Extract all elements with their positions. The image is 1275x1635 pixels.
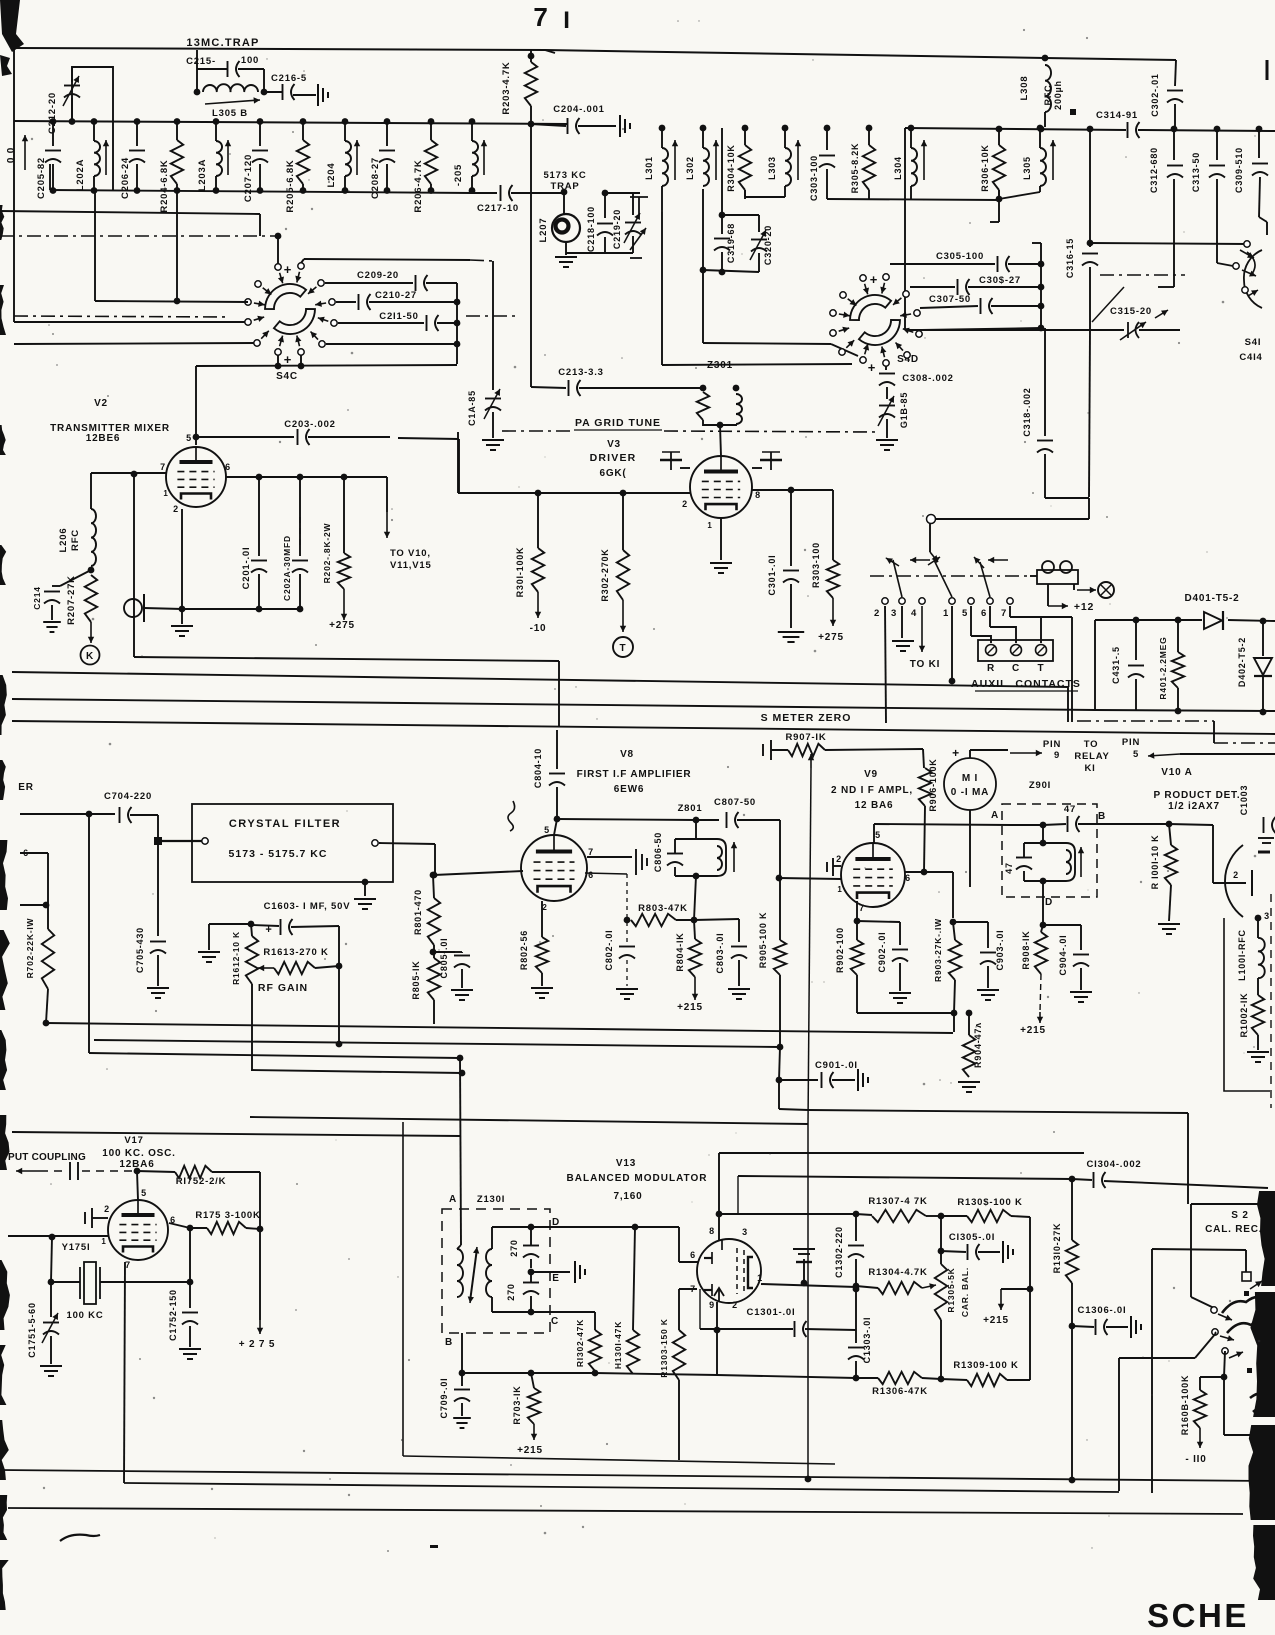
svg-text:100 KC: 100 KC [66,1310,103,1321]
wire [678,1227,680,1262]
junction [1040,822,1047,829]
wire [578,125,616,127]
resistor R1306-47K [878,1372,922,1384]
svg-text:R I00I-10 K: R I00I-10 K [1150,835,1160,890]
arrow slug [921,140,927,180]
capacitor C207-120 [252,151,268,163]
svg-text:B: B [1098,811,1106,822]
wire [1215,1332,1216,1333]
svg-text:6: 6 [905,873,911,883]
svg-text:K: K [86,651,94,662]
arrow to K [88,622,94,643]
arrow Z901 slug [1078,847,1084,877]
wire [1259,177,1260,217]
wire [1045,58,1176,60]
arrow C315 [1120,322,1146,340]
wire [910,128,912,148]
wire jog to S2 [808,1110,1188,1113]
junction rail2 [336,1041,343,1048]
wire [259,1172,261,1320]
scan artifact left margin [0,285,6,335]
wire main bus [14,121,568,124]
junction [275,233,282,240]
wire [130,814,158,816]
capacitor C203-.002 [298,429,310,445]
resistor R1303-150K [673,1330,685,1380]
svg-text:S 2: S 2 [1231,1210,1248,1221]
dash [82,1170,135,1172]
svg-text:R303-100: R303-100 [811,542,821,588]
svg-text:R: R [987,663,995,674]
wire [941,1251,966,1252]
wire [20,813,115,815]
lamp X [1098,582,1114,598]
svg-text:C303-100: C303-100 [809,155,819,201]
dashed edge [1270,894,1272,1108]
wire [212,1171,260,1173]
wire pin6 [905,871,922,873]
wire [537,493,539,548]
inductor L207 toroid [552,214,580,242]
resistor R1302-47K [589,1330,601,1371]
capacitor C206-24 [129,151,145,163]
junction [561,189,568,196]
scan artifact left margin [0,1495,7,1540]
wire [20,904,46,906]
wire to S4C row4 [14,343,254,344]
ground C803 [728,989,750,999]
svg-text:C312-680: C312-680 [1149,147,1159,193]
resistor R1305-5K [935,1264,947,1320]
arrow +275 [830,598,836,626]
capacitor C316-15 [1082,254,1098,266]
junction [1069,1323,1076,1330]
junction [428,187,435,194]
inductor Z901 coil [1066,843,1075,881]
wire diagonal [831,344,858,356]
wire [258,574,260,609]
svg-text:C1A-85: C1A-85 [467,390,477,426]
capacitor C1603-1MF [281,919,293,935]
junction [256,474,263,481]
wire [1152,1249,1246,1250]
svg-text:5: 5 [875,830,881,840]
svg-text:3: 3 [742,1227,748,1237]
svg-text:-205: -205 [453,164,464,186]
contact S4C-9 [254,340,260,346]
wire [258,477,260,556]
wire [472,192,497,194]
wire [696,819,719,821]
wire [1039,186,1041,192]
coupling cap [70,1162,78,1180]
capacitor C1303-.01 [848,1348,864,1360]
junction [454,320,461,327]
wire [50,1282,52,1317]
svg-text:+215: +215 [517,1445,543,1456]
capacitor C903-.01 [980,953,996,965]
wire [435,951,455,953]
wire wiper drop [808,768,811,1124]
wire [595,1373,717,1375]
arrow pin9 [1010,750,1042,756]
wire [716,1330,718,1375]
resistor R204-6.8K [171,140,183,184]
junction [866,125,873,132]
svg-text:5: 5 [141,1188,147,1198]
svg-text:L308: L308 [1019,76,1030,101]
svg-text:9: 9 [1054,750,1060,761]
scan artifact right margin [1257,1191,1275,1286]
wire [1007,1379,1030,1381]
resistor R803-47K [631,914,676,926]
wire to Z901 [874,824,1010,825]
junction [1069,1477,1076,1484]
gang cap stub [630,197,648,258]
wire [856,901,858,921]
arrow [1218,1314,1232,1321]
arrow contact [863,344,869,355]
wire [1135,679,1137,711]
svg-text:7: 7 [533,2,548,32]
wire [856,1214,872,1215]
ground C1A [482,440,504,450]
wire [157,955,159,986]
wire [744,128,746,145]
wire [632,1373,634,1375]
svg-text:270: 270 [509,1239,519,1256]
wire [1266,222,1268,235]
junction [776,875,783,882]
wire [991,305,1041,307]
capacitor C312-680 [1167,166,1183,178]
svg-text:100: 100 [241,55,259,66]
svg-text:R13I0-27K: R13I0-27K [1052,1223,1062,1274]
wire [825,749,923,750]
svg-text:+215: +215 [1020,1025,1046,1036]
wire pin9 [716,1302,718,1330]
wire [301,259,304,263]
svg-text:CI305-.0I: CI305-.0I [949,1232,995,1243]
wire pin1 [761,1284,856,1287]
wire [1245,1250,1247,1272]
inductor Z801 winding [717,846,722,870]
wire [302,121,304,140]
blade 3 [893,560,902,597]
svg-text:L202A: L202A [75,159,86,192]
terminal C [1011,645,1022,656]
junction [297,474,304,481]
wire [885,366,887,370]
wire [1040,974,1041,1012]
wire [910,286,955,288]
wire bottom rail3 [8,1508,1243,1514]
wire [426,282,457,284]
junction [1040,922,1047,929]
wire [1169,824,1171,845]
wire C1A drop [492,261,494,390]
wire [998,128,1000,145]
capacitor C1304-.002 [1094,1172,1106,1188]
svg-text:L206: L206 [58,528,69,553]
wire [545,50,555,53]
ground G1B [876,440,898,450]
svg-text:C206-24: C206-24 [120,157,131,199]
junction [528,53,535,60]
wire [300,355,302,366]
wire [379,843,435,844]
wire [471,121,473,141]
wire [398,438,459,439]
tube V3 6GK6 [690,456,752,518]
wire row4 [326,343,457,345]
wire [694,919,739,920]
svg-text:R302-270K: R302-270K [600,548,610,601]
svg-text:ER: ER [18,782,34,793]
contact S4C-7 [298,349,304,355]
contact S4D-3 [903,291,909,297]
inductor Z901 winding [1066,850,1071,874]
wire [433,875,434,898]
arrow contact [254,316,265,322]
resistor R1308-100K [967,1210,1011,1222]
junction [43,902,50,909]
wire [832,1079,855,1081]
wire [752,467,762,469]
resistor R401-2.2MEG [1172,652,1184,688]
wire rail 1176 [738,1176,1072,1179]
wire trap bottom [566,252,633,254]
scan artifact left margin [0,1345,6,1405]
wire [492,1226,531,1228]
wire [969,750,971,758]
wire [1047,584,1049,606]
wire [530,126,532,192]
scan artifact left margin [0,1030,7,1090]
arrow [1240,250,1254,258]
capacitor C211-50 [427,315,439,331]
resistor R1752-27K [175,1166,212,1178]
svg-text:C205-82: C205-82 [36,157,47,199]
inductor L302 [703,148,709,186]
ground C1751 [40,1366,62,1376]
capacitor C807-50 [727,812,739,828]
wire [1024,842,1066,844]
wire [259,164,261,191]
wire [93,121,95,141]
wire pin2 [833,865,841,867]
junction [213,187,220,194]
tube V8 6EW6 [521,835,587,901]
wire grid rail [458,492,690,494]
wire pin7 [587,856,632,858]
wire V3 grid [720,425,721,456]
svg-text:D402-T5-2: D402-T5-2 [1237,637,1247,687]
wire S2 box top [1191,1203,1268,1205]
svg-text:C314-91: C314-91 [1096,110,1138,121]
wire [721,252,723,272]
ink mark [430,1545,438,1548]
wire [215,121,217,141]
wire [530,1296,532,1312]
wire [530,1259,532,1268]
junction [300,187,307,194]
svg-text:+ 2 7 5: + 2 7 5 [239,1339,275,1350]
wire diagonal [1195,1333,1216,1358]
junction [49,1234,56,1241]
arrow blade6 [974,557,984,568]
contact S4D-1 [860,275,866,281]
capacitor C202A-30MFD [292,561,308,573]
wire [899,963,901,991]
contact S2 [1211,1307,1217,1313]
arrow to lamp [1077,587,1096,593]
svg-text:C1003: C1003 [1239,785,1249,816]
svg-text:5: 5 [186,433,192,443]
svg-text:S4C: S4C [276,371,298,382]
wire [144,608,182,609]
capacitor C1003-.002 [1264,817,1275,833]
junction [457,1055,464,1062]
wire [1257,1035,1259,1050]
junction [624,917,631,924]
arrow [1242,270,1256,277]
wire rail 1214 [719,1213,856,1215]
wire [953,1013,955,1032]
junction [693,817,700,824]
wire [196,436,294,438]
junction [134,1168,141,1175]
wire [1088,498,1090,519]
junction [1087,126,1094,133]
capacitor C705-430 [150,942,166,954]
wire [987,922,989,948]
resistor R1001-10K [1165,845,1177,885]
wire [695,820,697,839]
arrow wiper R907 [808,754,814,768]
svg-text:C1301-.0I: C1301-.0I [747,1307,796,1318]
junction [342,118,349,125]
wire rail3 [89,1053,460,1058]
wire [1257,918,1259,938]
wire [1029,1217,1031,1289]
capacitor C208-27 [379,151,395,163]
wire [246,1228,260,1229]
bypass gnd cap [793,1249,815,1283]
capacitor Z901-47b [1016,858,1032,870]
junction [801,1280,808,1287]
wire [215,176,217,191]
wire [901,606,903,638]
wire row4 [922,328,1041,330]
wire L202A bottom drop [94,190,96,301]
wire rail diodes [1095,710,1275,711]
svg-text:R160B-100K: R160B-100K [1180,1375,1190,1436]
junction [384,187,391,194]
inductor L203A [216,141,222,176]
capacitor C216-5 [283,84,295,100]
wire [563,192,565,214]
contact S4C-10 [245,319,251,325]
svg-text:- II0: - II0 [1185,1454,1206,1465]
wire lower rail [50,190,472,193]
svg-text:V11,V15: V11,V15 [390,560,432,571]
wire [47,905,49,929]
arrow contact [846,340,854,348]
wire [531,387,566,388]
arrow [1220,1335,1234,1341]
tube V13 [697,1239,761,1303]
svg-text:C212-20: C212-20 [47,92,58,134]
variable capacitor C1751-5-60 [43,1323,59,1335]
dash-dot gang [1100,274,1185,276]
wire [1228,620,1275,621]
wire [855,1289,857,1343]
crystal Y1751 [80,1262,100,1304]
capacitor C1752-150 [182,1313,198,1325]
wire [1072,1326,1094,1327]
svg-text:C802-.0I: C802-.0I [604,930,614,971]
junction [1166,821,1173,828]
svg-text:S METER ZERO: S METER ZERO [761,712,852,724]
ground C904 [1070,992,1092,1002]
capacitor C302-.01 [1167,91,1183,103]
wire [251,984,253,1070]
scan artifact [0,55,12,76]
junction [257,1226,264,1233]
wire line L2 [12,672,1068,687]
wire [93,176,95,191]
arrow slug [795,140,801,180]
capacitor C802-.01 [619,947,635,959]
wire [1259,217,1267,222]
wire [702,128,704,148]
arrow slug [225,140,231,175]
wire left edge vertical [13,121,15,322]
wire [430,121,432,140]
svg-text:R401-2.2MEG: R401-2.2MEG [1158,636,1168,699]
contact S4C-11 [245,299,251,305]
wire [176,121,178,140]
junction [43,1020,50,1027]
svg-text:+: + [284,262,292,277]
wire [136,164,138,191]
resistor R804-1K [689,939,701,977]
svg-text:C318-.002: C318-.002 [1022,387,1032,436]
ground V3 cathode [710,563,732,573]
arrow blade4 [910,557,930,563]
ground C301 [778,632,804,642]
wire [998,190,1000,199]
svg-text:C307-50: C307-50 [929,294,971,305]
wire [857,921,900,922]
ink squiggle [508,801,515,831]
wire drop [1151,1249,1153,1493]
wire line L3 [12,699,1095,710]
contact S4C-6 [319,341,325,347]
wire [1071,1179,1073,1240]
arrow slug [103,140,109,175]
arrow gang [630,228,646,250]
wire pin6 [679,1261,698,1263]
svg-text:RFC: RFC [70,529,81,551]
junction [91,118,98,125]
wire E [531,1271,570,1273]
wire R204 bottom drop [176,190,178,301]
junction [300,118,307,125]
wire [868,190,870,199]
junction [1038,325,1045,332]
